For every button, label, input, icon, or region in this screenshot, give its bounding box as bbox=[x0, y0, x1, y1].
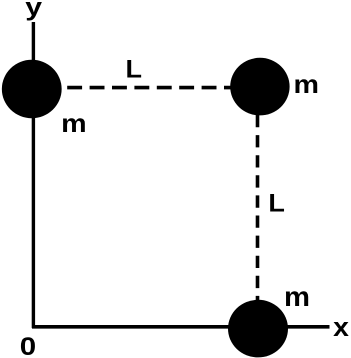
mass m (bottom-right, on x-axis) bbox=[228, 300, 288, 358]
svg-text:m: m bbox=[294, 69, 320, 99]
mass m (top-left, on y-axis) bbox=[2, 60, 62, 118]
svg-text:L: L bbox=[126, 56, 143, 84]
svg-text:x: x bbox=[333, 312, 349, 342]
x-axis bbox=[32, 325, 330, 329]
svg-text:y: y bbox=[25, 0, 42, 22]
wire: dashed line L (vertical, between right masses) bbox=[256, 115, 260, 302]
wire: dashed line L (horizontal, between top masses) bbox=[67, 86, 232, 90]
svg-text:m: m bbox=[284, 281, 310, 312]
svg-text:m: m bbox=[61, 108, 86, 138]
y-axis bbox=[32, 22, 35, 328]
svg-text:0: 0 bbox=[20, 333, 36, 358]
mass m (top-right) bbox=[230, 58, 289, 116]
svg-text:L: L bbox=[268, 190, 285, 218]
